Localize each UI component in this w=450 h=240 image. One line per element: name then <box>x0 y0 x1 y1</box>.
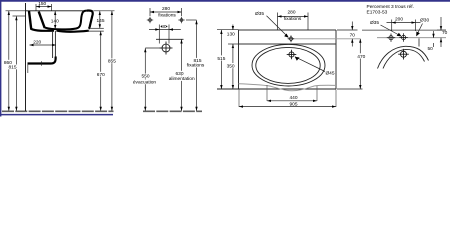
dim 200 <box>387 17 421 32</box>
svg-text:630: 630 <box>175 71 183 77</box>
tick hole to 815 line <box>186 19 197 21</box>
title percement <box>367 4 414 16</box>
dim 440 <box>267 85 317 102</box>
drain symbol plan <box>287 50 297 60</box>
leader O30 drilling <box>416 18 429 37</box>
svg-text:470: 470 <box>357 54 365 60</box>
svg-text:fixations: fixations <box>158 12 176 18</box>
tap centre line <box>294 38 360 40</box>
drilling bowl arc inner <box>383 49 425 68</box>
svg-text:Percement 3 trous réf.: Percement 3 trous réf. <box>367 4 414 10</box>
svg-text:670: 670 <box>97 72 105 78</box>
underside level tick <box>88 30 104 32</box>
dim 150 <box>36 1 52 11</box>
drain pipe <box>53 31 56 58</box>
dim 855 <box>94 11 117 111</box>
svg-text:50: 50 <box>428 46 434 52</box>
dim 70 drilling <box>437 17 448 47</box>
svg-text:130: 130 <box>227 32 235 38</box>
dim 905 <box>239 90 336 108</box>
svg-text:Ø35: Ø35 <box>255 11 264 17</box>
basin back wall section <box>29 11 31 29</box>
svg-text:515: 515 <box>217 56 225 62</box>
frame left border <box>0 0 2 117</box>
svg-text:70: 70 <box>442 30 448 36</box>
frame top border <box>0 0 450 2</box>
front view fixing hole right <box>178 17 184 23</box>
svg-text:140: 140 <box>51 19 59 25</box>
drilling bowl arc outer <box>378 46 429 68</box>
dim 860 <box>3 11 25 111</box>
svg-text:440: 440 <box>289 95 297 101</box>
svg-text:280: 280 <box>287 9 295 15</box>
plan view shelf line <box>239 43 337 45</box>
svg-text:fixations: fixations <box>187 63 205 69</box>
svg-text:E1703-53: E1703-53 <box>367 10 388 16</box>
drain trap elbow <box>28 57 56 64</box>
plan front contour <box>239 84 337 91</box>
svg-text:évacuation: évacuation <box>133 79 157 85</box>
svg-text:70: 70 <box>350 32 356 38</box>
basin bottom exterior <box>31 29 55 31</box>
wall line (side view) <box>25 3 27 111</box>
dim 130 <box>226 25 239 49</box>
svg-text:Ø30: Ø30 <box>420 18 429 24</box>
leader O35 drilling <box>370 20 402 37</box>
svg-text:Ø35: Ø35 <box>370 20 379 26</box>
dim 280 fixations plan <box>278 9 309 30</box>
dim 145 <box>96 11 104 28</box>
dim 630 alimentation <box>168 40 195 111</box>
dim 50 drilling <box>428 31 435 52</box>
dim 815 fixations <box>186 20 206 111</box>
plan view rectangle <box>239 30 337 89</box>
svg-text:220: 220 <box>33 40 41 46</box>
floor line <box>2 110 202 112</box>
tap hole symbol plan <box>288 35 295 42</box>
drain symbol front view <box>160 42 173 55</box>
drain wall stub <box>27 65 29 74</box>
svg-text:905: 905 <box>289 102 297 108</box>
drain elbow tick <box>41 61 43 65</box>
basin inner back slope section <box>39 12 45 29</box>
basin side profile rim line <box>26 10 94 12</box>
svg-text:550: 550 <box>141 74 149 80</box>
plan view front edge <box>217 88 336 90</box>
dim 220 <box>30 40 57 47</box>
front view fixing hole left <box>147 17 153 23</box>
svg-text:150: 150 <box>38 1 46 7</box>
dim 280 fixations front <box>150 6 182 19</box>
frame bottom-left border <box>0 114 113 116</box>
drilling right hole tick <box>418 38 420 46</box>
dim 670 <box>96 31 107 111</box>
drilling hole centre <box>399 33 407 41</box>
drilling hole left <box>387 34 395 42</box>
drilling hole on arc <box>398 49 409 60</box>
basin front apron <box>87 11 93 29</box>
dim 550 evacuation <box>132 48 159 111</box>
drilling hole axis line <box>377 37 446 39</box>
svg-text:815: 815 <box>8 65 16 71</box>
svg-text:200: 200 <box>395 17 403 23</box>
svg-text:145: 145 <box>96 18 104 24</box>
svg-text:alimentation: alimentation <box>169 76 195 82</box>
drain leader <box>145 47 162 49</box>
dim 515 <box>216 30 239 89</box>
drilling back edge line <box>362 29 446 31</box>
leader O35 plan <box>255 11 289 38</box>
dim 470 <box>337 39 367 89</box>
apron bottom tick <box>90 27 104 29</box>
supply line <box>156 38 184 40</box>
svg-text:280: 280 <box>162 6 170 12</box>
bowl inner ellipse <box>256 47 320 83</box>
bowl interior bottom and front S-curve <box>45 11 87 30</box>
bowl outer ellipse <box>252 44 325 86</box>
dim 70 plan <box>337 22 358 47</box>
dim 350 <box>225 44 236 89</box>
svg-text:350: 350 <box>227 64 235 70</box>
dim 80 <box>149 24 181 44</box>
dim 815 left <box>7 16 25 111</box>
basin underside to front <box>57 31 89 32</box>
svg-text:fixations: fixations <box>284 16 302 22</box>
svg-text:855: 855 <box>108 58 116 64</box>
dim 140 <box>51 11 59 29</box>
svg-text:Ø45: Ø45 <box>325 71 334 77</box>
leader O45 <box>295 57 335 77</box>
